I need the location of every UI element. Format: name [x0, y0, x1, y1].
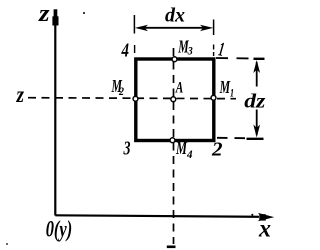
dx dimension: right extension line (upper) [213, 20, 215, 36]
speck artifact top [83, 12, 85, 14]
svg-text:4: 4 [186, 147, 192, 161]
dx dimension: left extension line (upper) [133, 15, 135, 34]
dz dimension: top tick [254, 58, 265, 60]
dz dimension line with arrows (broken by label) [253, 60, 260, 138]
node M2 (left middle) [133, 96, 138, 101]
node A (center) [171, 97, 176, 102]
svg-text:dz: dz [244, 90, 265, 112]
svg-text:z: z [16, 82, 24, 107]
svg-text:4: 4 [121, 40, 129, 62]
svg-text:z: z [38, 1, 50, 27]
node M1 (right middle) [211, 95, 216, 100]
svg-text:M: M [175, 138, 187, 158]
speck artifact bottom left [6, 243, 8, 245]
vertical dashed line (through M3, A, M4) [173, 48, 175, 244]
node M4 (bottom middle) [170, 138, 175, 143]
x axis (horizontal) [55, 213, 274, 221]
svg-text:A: A [175, 80, 183, 97]
node M3 (top middle) [172, 57, 177, 62]
dz dimension: bottom tick [247, 138, 264, 140]
svg-text:x: x [258, 216, 271, 243]
dz dimension: top dashed connector from corner 1 [216, 57, 253, 60]
square element (thick) [136, 59, 214, 141]
svg-text:dx: dx [165, 5, 185, 27]
svg-text:3: 3 [187, 44, 193, 58]
svg-text:2: 2 [211, 139, 223, 161]
svg-text:2: 2 [118, 84, 124, 98]
speck artifact near x arrow [251, 214, 253, 216]
horizontal dashed line z (through M2, A, M1) [28, 98, 236, 99]
svg-text:M: M [219, 77, 231, 97]
svg-text:1: 1 [230, 85, 234, 99]
dx dimension line with outward arrows [135, 25, 214, 31]
svg-text:3: 3 [123, 138, 131, 160]
svg-text:0(y): 0(y) [46, 216, 72, 241]
dx dimension: left extension line (lower) [134, 45, 136, 53]
dz dimension: bottom dashed connector from corner 2 [217, 137, 246, 139]
z axis (vertical) [52, 9, 58, 215]
tick at bottom of vertical dashed line [167, 246, 176, 249]
dx dimension: right extension line (lower) [213, 45, 215, 57]
